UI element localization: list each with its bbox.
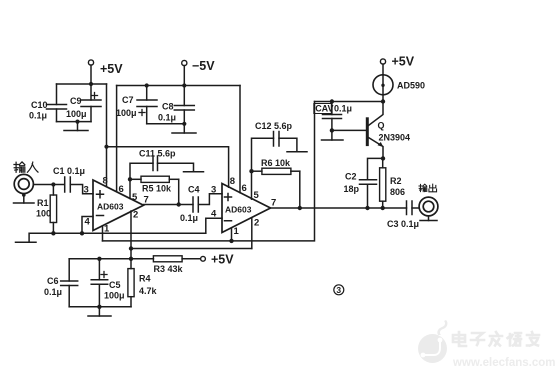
svg-text:3: 3 [84, 185, 89, 196]
svg-text:806: 806 [390, 187, 405, 197]
svg-text:C2: C2 [345, 172, 357, 182]
wire C7/C8 bottom [147, 123, 185, 125]
junction +5V stem [89, 82, 93, 86]
capacitor C1 [65, 177, 71, 192]
resistor R3 [153, 256, 200, 262]
svg-text:C7: C7 [122, 95, 134, 105]
label C7 100u [116, 95, 137, 118]
svg-text:100μ: 100μ [66, 109, 87, 119]
svg-text:+5V: +5V [100, 62, 123, 76]
svg-text:0.1μ: 0.1μ [334, 104, 352, 114]
wire +5V rail [57, 83, 107, 85]
svg-text:−5V: −5V [192, 59, 215, 73]
svg-text:C5: C5 [109, 280, 121, 290]
svg-text:2: 2 [254, 218, 259, 229]
junction emitter [381, 156, 385, 160]
connector J2 output [419, 197, 438, 216]
junction AD590 out [381, 99, 385, 103]
terminal +5V (right) [380, 59, 385, 75]
wire bias bottom [69, 306, 131, 308]
svg-text:0.1μ: 0.1μ [29, 111, 47, 121]
wire gain bus (pin1) [103, 102, 315, 241]
svg-text:8: 8 [103, 176, 108, 187]
svg-text:www.elecfans.com: www.elecfans.com [452, 357, 555, 369]
capacitor C8 [174, 86, 194, 124]
junction pin2 bus [129, 246, 133, 250]
svg-text:3: 3 [211, 185, 216, 196]
op-amp U1 [93, 180, 144, 231]
svg-text:4: 4 [211, 209, 217, 220]
wire gain ref bus (pin2) [131, 248, 252, 250]
svg-text:AD603: AD603 [97, 202, 124, 212]
resistor R2 [380, 158, 386, 208]
svg-text:C9: C9 [70, 96, 82, 106]
junction R6/output [298, 206, 302, 210]
ground (base) [322, 130, 344, 140]
wire -5V rail [117, 85, 240, 87]
junction C2/output [365, 206, 369, 210]
junction CAV [330, 99, 334, 103]
junction Q base [330, 128, 334, 132]
svg-text:0.1μ: 0.1μ [44, 287, 62, 297]
pin 2 wire U1 [130, 211, 132, 259]
svg-text:6: 6 [119, 184, 124, 195]
capacitor C11 [153, 156, 158, 171]
svg-text:18p: 18p [344, 184, 360, 194]
svg-text:+5V: +5V [392, 55, 415, 69]
svg-text:5: 5 [132, 192, 138, 203]
wire +5V to U1 pin8 [106, 147, 108, 187]
svg-text:100μ: 100μ [116, 108, 137, 118]
pin 4 wire U1 [82, 217, 93, 234]
junction ground stem [75, 120, 79, 124]
pin 5 wire U2 [251, 171, 253, 199]
junction C8 [182, 83, 186, 87]
ground (bias) [88, 307, 111, 316]
svg-text:0.1μ: 0.1μ [180, 213, 198, 223]
node U2 feedback [249, 169, 253, 173]
wire +5V feed down [106, 84, 108, 147]
node U1 feedback [128, 177, 132, 181]
ground (C7/C8) [172, 124, 196, 133]
capacitor C9 [81, 84, 101, 122]
svg-text:AD603: AD603 [225, 205, 252, 215]
wire to C12 [252, 138, 274, 171]
junction R2/output [381, 206, 385, 210]
svg-text:C6: C6 [47, 276, 59, 286]
wire U2 out to C3 [271, 207, 407, 209]
svg-text:4.7k: 4.7k [139, 286, 158, 296]
svg-text:100: 100 [36, 209, 51, 219]
wire ground bus [29, 233, 206, 242]
svg-text:CAV: CAV [315, 104, 333, 114]
wire C9/C10 bottom [57, 121, 92, 123]
svg-text:R2: R2 [390, 176, 402, 186]
ground (C12) [287, 151, 307, 153]
wire base [332, 129, 366, 131]
svg-text:2N3904: 2N3904 [379, 133, 411, 143]
svg-text:R6 10k: R6 10k [261, 158, 291, 168]
capacitor C3 [407, 201, 413, 215]
label R1 100 [36, 198, 51, 219]
figure number 3 [334, 285, 344, 295]
junction U1 output [177, 202, 181, 206]
svg-text:C8: C8 [162, 102, 174, 112]
wire bias rail [69, 258, 153, 260]
svg-text:R3 43k: R3 43k [154, 264, 184, 274]
current source U3 AD590 [373, 75, 393, 102]
junction ground bias [97, 305, 101, 309]
junction C5 top [97, 257, 101, 261]
capacitor C2 [360, 180, 377, 208]
wire -5V to U1 pin6 [116, 86, 118, 192]
terminal +5V (left) [88, 60, 93, 84]
ground (C11) [184, 171, 204, 173]
pin 2 wire U2 [251, 219, 253, 249]
label C5 100u [104, 280, 125, 301]
capacitor C4 [193, 197, 198, 212]
pin 1 wire U1 [102, 226, 104, 241]
junction R1 top [51, 182, 55, 186]
svg-text:R5 10k: R5 10k [142, 184, 172, 194]
svg-text:AD590: AD590 [397, 81, 425, 91]
wire emitter to C2 [368, 158, 384, 179]
wire -5V to U2 pin6 [239, 86, 241, 193]
resistor R6 [252, 168, 300, 174]
junction R1 bottom [51, 231, 55, 235]
capacitor CAV [323, 102, 342, 131]
label output (shu chu) [419, 184, 437, 192]
svg-text:R1: R1 [37, 198, 49, 208]
pin 1 wire U2 [231, 229, 233, 241]
pin 4 wire U2 [206, 218, 222, 233]
svg-text:4: 4 [85, 217, 91, 228]
resistor R5 [130, 176, 179, 182]
wire gain-control rail [315, 101, 384, 103]
junction C7 [145, 83, 149, 87]
watermark text dianzifashaoyou [453, 332, 539, 346]
label R4 4.7k [139, 274, 158, 297]
svg-text:C12 5.6p: C12 5.6p [255, 121, 293, 131]
wire U1 out to C4 [144, 204, 194, 206]
capacitor C6 [61, 259, 78, 307]
svg-text:5: 5 [254, 190, 260, 201]
capacitor C7 [137, 86, 157, 124]
wire C12 right [279, 138, 297, 152]
wire +5V to U2 pin8 [107, 147, 229, 188]
junction pin2/R4 [129, 257, 133, 261]
ground (left end) [16, 241, 37, 243]
svg-text:C4: C4 [188, 185, 200, 195]
terminal -5V [182, 60, 187, 85]
op-amp U2 [222, 184, 271, 233]
wire R5 to output node [178, 179, 180, 204]
transistor Q 2N3904 [367, 102, 383, 159]
svg-text:1: 1 [234, 226, 240, 237]
watermark logo trace [421, 338, 443, 358]
wire C1 to U1 pin3 [70, 185, 93, 194]
capacitor C10 [47, 84, 67, 122]
wire R6 to output [299, 171, 301, 208]
svg-text:Q: Q [378, 121, 385, 131]
connector J1 input [14, 174, 33, 193]
label C9 100u [66, 96, 87, 119]
capacitor C12 [274, 132, 280, 147]
svg-text:100μ: 100μ [104, 291, 125, 301]
ground (C9/C10) [64, 122, 88, 131]
wire jack to C1 [33, 184, 64, 186]
junction ground C8 [182, 122, 186, 126]
svg-text:+5V: +5V [211, 253, 234, 267]
wire to C11 [130, 163, 153, 179]
svg-text:0.1μ: 0.1μ [158, 113, 176, 123]
pin 5 wire U1 [129, 179, 131, 198]
label C6 0.1u [44, 276, 62, 297]
wire C11 right [158, 163, 194, 172]
capacitor C5 [91, 259, 108, 307]
wire C4 to U2 pin3 [198, 194, 222, 205]
svg-text:R4: R4 [139, 274, 151, 284]
svg-text:8: 8 [230, 176, 235, 187]
wire C3 to jack [412, 207, 419, 209]
node +5V branch [104, 145, 108, 149]
svg-text:2: 2 [133, 210, 138, 221]
resistor R1 [50, 185, 56, 234]
svg-text:7: 7 [271, 198, 276, 209]
resistor R4 [128, 259, 134, 307]
svg-text:C11 5.6p: C11 5.6p [139, 149, 176, 159]
label R2 806 [390, 176, 405, 197]
ground (output jack) [420, 216, 437, 221]
label input (shu ru) [14, 162, 38, 172]
label CAV 0.1u [314, 104, 352, 114]
ground (input jack) [14, 193, 35, 203]
svg-text:3: 3 [336, 285, 341, 295]
svg-text:C10: C10 [31, 100, 48, 110]
junction U2 pin1 [229, 239, 233, 243]
svg-text:6: 6 [242, 183, 247, 194]
watermark logo [418, 320, 447, 363]
junction U1 pin4 [80, 231, 84, 235]
label C10 0.1u [29, 100, 48, 121]
label C2 18p [344, 172, 360, 195]
svg-text:C3 0.1μ: C3 0.1μ [387, 219, 419, 229]
svg-text:C1 0.1μ: C1 0.1μ [53, 166, 85, 176]
label C8 0.1u [158, 102, 176, 123]
terminal +5V (R3) [201, 256, 206, 261]
